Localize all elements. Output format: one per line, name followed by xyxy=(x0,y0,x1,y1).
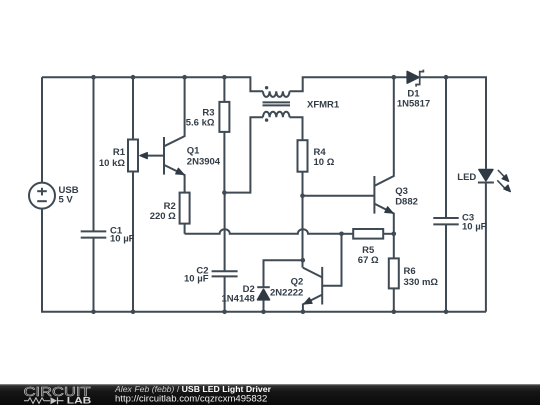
svg-text:Q1: Q1 xyxy=(187,145,200,156)
svg-text:XFMR1: XFMR1 xyxy=(307,99,340,110)
svg-text:1N5817: 1N5817 xyxy=(397,99,430,110)
svg-text:10 µF: 10 µF xyxy=(110,234,135,245)
svg-text:5.6 kΩ: 5.6 kΩ xyxy=(186,118,215,129)
svg-text:10 Ω: 10 Ω xyxy=(314,157,335,168)
svg-text:http://circuitlab.com/cqzrcxm4: http://circuitlab.com/cqzrcxm495832 xyxy=(115,393,267,404)
svg-text:Alex Feb (febb) / USB LED Ligh: Alex Feb (febb) / USB LED Light Driver xyxy=(114,384,272,394)
svg-text:2N3904: 2N3904 xyxy=(187,157,221,168)
svg-text:Q2: Q2 xyxy=(291,277,304,288)
svg-text:Q3: Q3 xyxy=(395,186,408,197)
svg-text:R1: R1 xyxy=(113,147,126,158)
svg-text:220 Ω: 220 Ω xyxy=(150,211,176,222)
svg-text:5 V: 5 V xyxy=(59,195,74,206)
svg-text:10 µF: 10 µF xyxy=(462,221,487,232)
svg-text:67 Ω: 67 Ω xyxy=(358,255,379,266)
svg-text:330 mΩ: 330 mΩ xyxy=(404,277,439,288)
svg-text:1N4148: 1N4148 xyxy=(222,294,255,305)
svg-text:D882: D882 xyxy=(395,196,418,207)
svg-text:R5: R5 xyxy=(362,245,375,256)
svg-text:10 µF: 10 µF xyxy=(184,273,209,284)
svg-text:R6: R6 xyxy=(404,266,416,277)
svg-text:LED: LED xyxy=(457,172,476,183)
svg-text:2N2222: 2N2222 xyxy=(270,288,303,299)
svg-text:LAB: LAB xyxy=(67,395,92,405)
svg-text:10 kΩ: 10 kΩ xyxy=(99,158,125,169)
